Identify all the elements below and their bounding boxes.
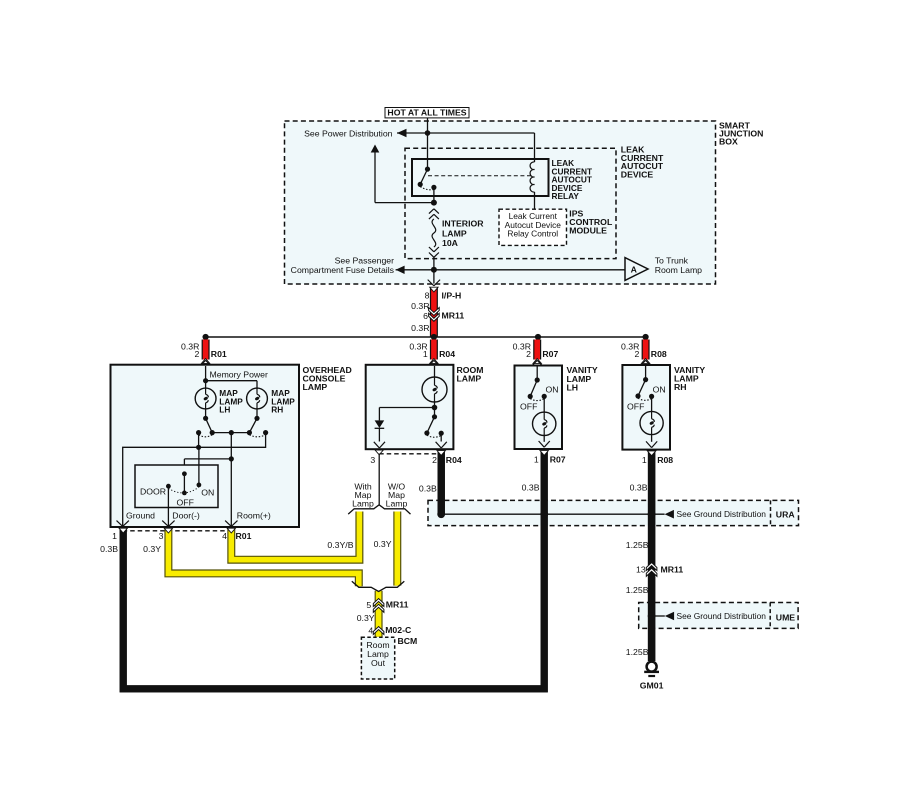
svg-text:0.3B: 0.3B [419, 484, 437, 494]
svg-text:4: 4 [222, 531, 227, 541]
svg-text:0.3B: 0.3B [100, 544, 118, 554]
svg-text:R01: R01 [236, 531, 252, 541]
svg-text:10A: 10A [442, 238, 459, 248]
svg-text:Ground: Ground [126, 511, 155, 521]
svg-text:UME: UME [776, 613, 796, 623]
svg-text:0.3Y/B: 0.3Y/B [327, 540, 353, 550]
svg-text:Room(+): Room(+) [237, 511, 271, 521]
svg-text:3: 3 [370, 455, 375, 465]
svg-text:13: 13 [636, 565, 646, 575]
svg-text:MR11: MR11 [661, 564, 684, 574]
svg-text:DOOR: DOOR [140, 487, 166, 497]
svg-text:OFF: OFF [177, 497, 194, 507]
svg-text:BCM: BCM [398, 636, 418, 646]
svg-text:Compartment Fuse Details: Compartment Fuse Details [291, 265, 395, 275]
svg-text:See Power Distribution: See Power Distribution [304, 128, 393, 138]
svg-text:HOT AT ALL TIMES: HOT AT ALL TIMES [387, 108, 466, 118]
svg-text:0.3Y: 0.3Y [143, 544, 161, 554]
svg-text:2: 2 [195, 349, 200, 359]
svg-text:Memory Power: Memory Power [210, 370, 269, 380]
svg-text:Door(-): Door(-) [172, 511, 200, 521]
svg-text:OFF: OFF [627, 402, 644, 412]
svg-text:R08: R08 [651, 349, 667, 359]
svg-text:INTERIOR: INTERIOR [442, 219, 484, 229]
svg-text:0.3Y: 0.3Y [374, 539, 392, 549]
svg-text:1: 1 [423, 349, 428, 359]
svg-text:Out: Out [371, 658, 386, 668]
svg-text:Lamp: Lamp [386, 499, 408, 509]
svg-text:DEVICE: DEVICE [621, 169, 654, 179]
svg-text:2: 2 [432, 455, 437, 465]
svg-text:4: 4 [368, 626, 373, 636]
svg-text:Room Lamp: Room Lamp [655, 265, 702, 275]
svg-text:R07: R07 [550, 455, 566, 465]
svg-text:ON: ON [201, 487, 214, 497]
svg-text:BOX: BOX [719, 137, 738, 147]
svg-text:0.3R: 0.3R [411, 301, 429, 311]
svg-text:RELAY: RELAY [552, 191, 580, 201]
svg-text:A: A [631, 264, 638, 274]
svg-text:R04: R04 [439, 349, 455, 359]
svg-text:OFF: OFF [520, 402, 537, 412]
svg-text:LH: LH [567, 383, 579, 393]
svg-text:MODULE: MODULE [569, 225, 607, 235]
svg-text:LAMP: LAMP [442, 228, 467, 238]
svg-text:R07: R07 [542, 349, 558, 359]
svg-text:ON: ON [546, 385, 559, 395]
svg-text:R01: R01 [211, 349, 227, 359]
svg-text:1.25B: 1.25B [626, 585, 649, 595]
svg-text:See Ground Distribution: See Ground Distribution [677, 509, 767, 519]
svg-text:I/P-H: I/P-H [442, 291, 462, 301]
svg-text:1: 1 [534, 455, 539, 465]
svg-text:ON: ON [653, 385, 666, 395]
svg-text:GM01: GM01 [640, 680, 664, 690]
svg-text:5: 5 [366, 600, 371, 610]
svg-text:MR11: MR11 [442, 311, 465, 321]
svg-text:R04: R04 [446, 455, 462, 465]
svg-text:0.3Y: 0.3Y [357, 613, 375, 623]
svg-text:See Ground Distribution: See Ground Distribution [677, 611, 767, 621]
svg-text:URA: URA [776, 510, 796, 520]
svg-text:1.25B: 1.25B [626, 647, 649, 657]
svg-text:0.3B: 0.3B [522, 482, 540, 492]
svg-text:2: 2 [526, 349, 531, 359]
svg-text:LAMP: LAMP [303, 382, 328, 392]
svg-text:RH: RH [674, 382, 687, 392]
svg-text:3: 3 [159, 531, 164, 541]
svg-text:Lamp: Lamp [352, 499, 374, 509]
svg-text:1: 1 [642, 455, 647, 465]
svg-text:0.3R: 0.3R [411, 323, 429, 333]
svg-text:6: 6 [423, 311, 428, 321]
svg-text:R08: R08 [657, 455, 673, 465]
svg-text:Relay Control: Relay Control [507, 228, 558, 238]
svg-text:RH: RH [271, 405, 283, 415]
svg-text:8: 8 [425, 291, 430, 301]
svg-text:0.3B: 0.3B [630, 482, 648, 492]
svg-text:1: 1 [112, 531, 117, 541]
svg-text:M02-C: M02-C [385, 625, 412, 635]
svg-text:LAMP: LAMP [457, 374, 482, 384]
svg-text:2: 2 [635, 349, 640, 359]
svg-text:LH: LH [219, 405, 230, 415]
svg-text:1.25B: 1.25B [626, 540, 649, 550]
svg-text:MR11: MR11 [386, 600, 409, 610]
